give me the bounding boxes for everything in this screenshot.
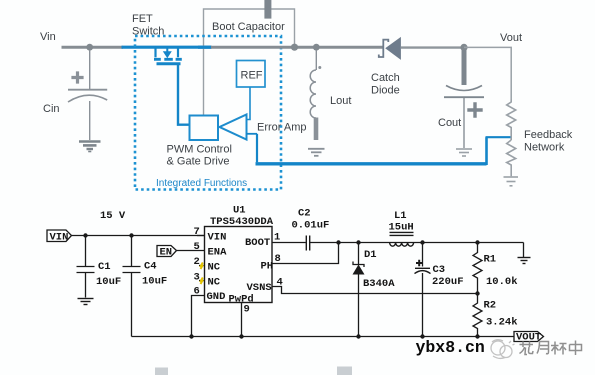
svg-text:2: 2: [194, 256, 200, 268]
no-connect mark pin 2 (yellow): [201, 263, 203, 270]
svg-text:C4: C4: [144, 261, 157, 273]
svg-text:4: 4: [277, 277, 283, 289]
artifact gray block left: [155, 368, 168, 375]
svg-text:Vin: Vin: [40, 31, 56, 43]
ground C1: [78, 299, 94, 305]
node rail GND pin: [189, 334, 193, 338]
resistor feedback upper: [507, 100, 516, 141]
svg-text:7: 7: [194, 226, 200, 238]
no-connect mark pin 3 (yellow): [201, 278, 203, 285]
svg-text:Boot Capacitor: Boot Capacitor: [212, 21, 285, 33]
ground Lout: [308, 149, 325, 156]
pin 9 PwPd stub: [241, 303, 243, 337]
svg-text:NC: NC: [208, 262, 221, 274]
node C1 top: [83, 233, 87, 237]
node rail pin9: [239, 334, 243, 338]
wire Vin main rail left gray segment: [62, 46, 124, 49]
svg-text:9: 9: [244, 304, 250, 316]
svg-text:Vout: Vout: [500, 32, 522, 44]
capacitor C1: [77, 236, 95, 298]
svg-text:C3: C3: [433, 264, 446, 276]
svg-text:NC: NC: [208, 277, 221, 289]
svg-text:Diode: Diode: [371, 85, 400, 97]
svg-text:Error Amp: Error Amp: [257, 122, 307, 134]
pin 7 VIN stub: [197, 235, 205, 237]
node rail R2: [475, 334, 479, 338]
svg-text:Cout: Cout: [438, 117, 461, 129]
artifact gray block right: [337, 367, 352, 375]
wire blue rail overlay at box crossing: [198, 46, 212, 49]
ground Cout: [456, 149, 472, 156]
wire error amp to feedback (thick blue): [247, 134, 512, 165]
svg-text:R2: R2: [484, 300, 497, 312]
svg-text:ENA: ENA: [208, 247, 228, 259]
node Lout top: [313, 44, 320, 51]
op-amp Error Amp triangle: [220, 115, 247, 140]
op-amp block PWM Control & Gate Drive: [190, 116, 219, 141]
svg-text:TPS5430DDA: TPS5430DDA: [210, 216, 274, 228]
capacitor Cin: [68, 50, 107, 140]
svg-text:BOOT: BOOT: [245, 237, 270, 249]
svg-text:L1: L1: [394, 210, 407, 222]
svg-text:15 V: 15 V: [100, 210, 126, 222]
svg-text:15uH: 15uH: [389, 222, 414, 234]
svg-text:VSNS: VSNS: [247, 282, 272, 294]
resistor feedback lower: [507, 140, 516, 176]
svg-text:PH: PH: [261, 261, 274, 273]
svg-text:1: 1: [274, 232, 280, 244]
svg-text:3: 3: [194, 272, 200, 284]
node PH junction: [336, 240, 340, 244]
svg-text:10uF: 10uF: [142, 276, 167, 288]
net label EN tag: [157, 246, 177, 257]
node R1/R2 junction: [475, 291, 479, 295]
svg-text:GND: GND: [207, 291, 226, 303]
svg-text:& Gate Drive: & Gate Drive: [167, 156, 230, 168]
svg-text:10.0k: 10.0k: [486, 276, 518, 288]
block REF: [237, 61, 266, 88]
pin 8 PH stub: [272, 243, 339, 264]
resistor R1: [473, 243, 482, 294]
wire EN to ENA pin: [177, 250, 206, 252]
net label VIN tag: [47, 230, 72, 242]
node rail D1: [356, 334, 360, 338]
inductor Lout: [310, 50, 316, 140]
svg-text:VIN: VIN: [50, 232, 69, 244]
svg-text:Integrated Functions: Integrated Functions: [156, 178, 247, 189]
ground top right: [523, 243, 525, 258]
boot capacitor loop box (gray): [204, 9, 295, 116]
capacitor C2: [306, 236, 309, 251]
node boot-cap right: [291, 44, 298, 51]
svg-text:Feedback: Feedback: [524, 129, 573, 141]
svg-text:Catch: Catch: [371, 72, 400, 84]
capacitor Cout: [444, 50, 484, 148]
svg-text:C1: C1: [98, 261, 111, 273]
diode Catch Diode cathode bar with schottky hooks: [379, 40, 389, 57]
resistor R2: [473, 294, 482, 337]
inductor L1: [390, 232, 414, 246]
pin 6 GND stub: [192, 296, 205, 337]
pin 2 NC stub: [199, 265, 205, 267]
svg-text:C2: C2: [298, 208, 311, 220]
svg-text:220uF: 220uF: [432, 276, 464, 288]
svg-text:Network: Network: [524, 142, 565, 154]
net label VOUT tag: [514, 332, 544, 342]
capacitor C3 (polarized): [422, 243, 424, 267]
phase dot Lout: [318, 66, 321, 69]
diode Catch Diode triangle: [385, 37, 401, 60]
wire PH top rail: [339, 242, 524, 244]
wire FET source to PWM box (blue): [178, 65, 190, 125]
node C3 top: [420, 240, 424, 244]
pin 3 NC stub: [199, 280, 205, 282]
svg-text:PWM Control: PWM Control: [167, 144, 232, 156]
wire main rail gray middle segment: [211, 46, 383, 49]
pin 1 BOOT stub: [272, 242, 339, 244]
wire main rail blue segment under FET: [122, 46, 212, 49]
watermark chinese characters 花月杯中: [520, 341, 582, 356]
diode D1 (schottky): [358, 243, 360, 265]
svg-text:0.01uF: 0.01uF: [292, 220, 330, 232]
pin 4 VSNS stub: [272, 287, 478, 294]
wire ground rail bottom: [132, 336, 515, 338]
node Cout top: [460, 44, 467, 51]
svg-text:Cin: Cin: [43, 103, 60, 115]
wire REF to error amp input: [247, 87, 251, 120]
svg-text:6: 6: [194, 286, 200, 298]
svg-text:R1: R1: [484, 254, 497, 266]
wire VIN rail: [72, 235, 206, 237]
svg-text:EN: EN: [160, 247, 173, 259]
svg-text:5: 5: [194, 241, 200, 253]
svg-text:ybx8.cn: ybx8.cn: [416, 338, 485, 357]
svg-text:U1: U1: [233, 205, 246, 217]
svg-text:8: 8: [275, 253, 281, 265]
node rail C3: [420, 334, 424, 338]
ground Cin: [79, 142, 101, 152]
wire Vout stub: [464, 47, 511, 99]
transistor FET switch (blue): [154, 49, 182, 64]
svg-text:Lout: Lout: [330, 95, 351, 107]
transistor FET arrow: [163, 51, 172, 58]
svg-text:FET: FET: [132, 13, 153, 25]
svg-text:D1: D1: [364, 249, 377, 261]
node D1 top: [356, 240, 360, 244]
svg-text:3.24k: 3.24k: [486, 317, 518, 329]
ground feedback: [504, 177, 519, 186]
svg-text:VIN: VIN: [208, 232, 227, 244]
capacitor C4: [123, 236, 141, 337]
boot capacitor plate bar: [264, 0, 271, 19]
wire main rail right of diode: [401, 46, 464, 48]
svg-text:B340A: B340A: [363, 278, 395, 290]
svg-text:10uF: 10uF: [96, 276, 121, 288]
dotted integrated-functions box: [135, 36, 281, 190]
svg-text:REF: REF: [241, 70, 263, 82]
node C4 top: [129, 233, 133, 237]
node R1 top: [475, 240, 479, 244]
watermark logo scribble: [491, 340, 515, 359]
IC U1 box: [205, 227, 273, 303]
svg-text:VOUT: VOUT: [516, 332, 541, 344]
node Vin/Cin junction: [86, 44, 93, 51]
